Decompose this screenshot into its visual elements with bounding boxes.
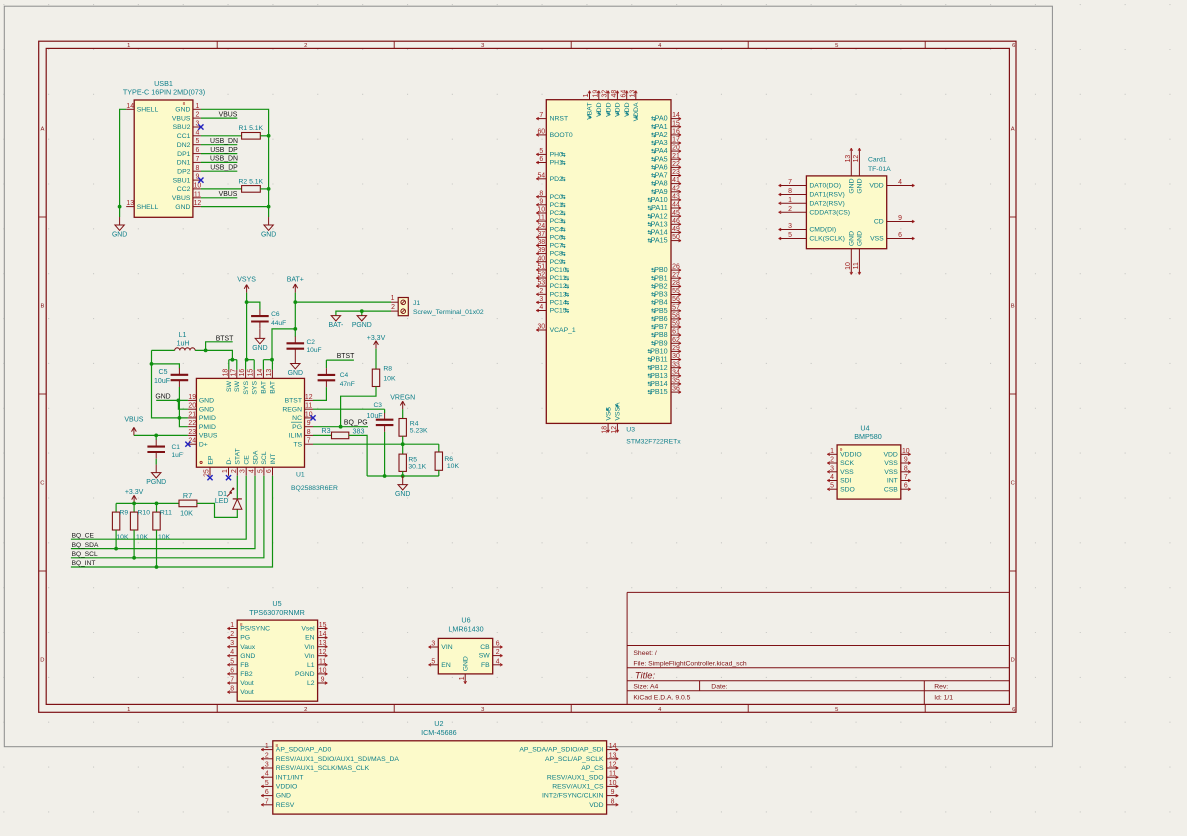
svg-text:GND: GND	[849, 178, 856, 193]
svg-text:BAT: BAT	[261, 381, 268, 394]
svg-text:5: 5	[431, 658, 435, 665]
svg-text:SW: SW	[234, 380, 241, 392]
svg-text:5: 5	[835, 43, 838, 49]
svg-text:5: 5	[257, 469, 264, 473]
svg-text:25: 25	[204, 469, 211, 477]
svg-text:RESV/AUX1_SCLK/MAS_CLK: RESV/AUX1_SCLK/MAS_CLK	[276, 765, 370, 772]
svg-text:13: 13	[319, 640, 327, 647]
svg-text:PGND: PGND	[295, 671, 315, 678]
svg-text:21: 21	[672, 153, 680, 160]
svg-text:3: 3	[539, 296, 543, 303]
svg-text:52: 52	[537, 272, 545, 279]
svg-text:10uF: 10uF	[307, 347, 322, 354]
svg-text:6: 6	[1012, 43, 1015, 49]
svg-text:+3.3V: +3.3V	[367, 335, 386, 342]
svg-text:15: 15	[319, 622, 327, 629]
svg-text:USB_DP: USB_DP	[210, 164, 238, 171]
svg-text:EN: EN	[441, 662, 451, 669]
svg-text:VBUS: VBUS	[172, 195, 191, 202]
svg-text:11: 11	[319, 658, 326, 665]
svg-text:23: 23	[672, 169, 680, 176]
svg-text:INT2/FSYNC/CLKIN: INT2/FSYNC/CLKIN	[542, 793, 604, 800]
svg-text:29: 29	[672, 345, 680, 352]
svg-text:22: 22	[672, 161, 680, 168]
svg-text:VSS: VSS	[884, 469, 898, 476]
svg-text:SW: SW	[479, 653, 491, 660]
svg-text:GND: GND	[252, 345, 267, 352]
svg-text:PG: PG	[292, 424, 302, 431]
svg-text:8: 8	[195, 165, 199, 172]
svg-text:PA15: PA15	[651, 236, 668, 245]
svg-text:14: 14	[609, 743, 617, 750]
svg-text:20: 20	[672, 145, 680, 152]
svg-text:BTST: BTST	[337, 353, 355, 360]
svg-text:C3: C3	[374, 402, 383, 409]
svg-text:11: 11	[305, 403, 312, 410]
svg-text:13: 13	[629, 90, 636, 98]
svg-text:Vout: Vout	[240, 680, 254, 687]
svg-text:FB2: FB2	[240, 671, 253, 678]
svg-text:U6: U6	[461, 616, 470, 625]
svg-text:20: 20	[188, 403, 196, 410]
svg-text:SHELL: SHELL	[137, 204, 159, 211]
svg-text:19: 19	[592, 90, 599, 98]
svg-text:2: 2	[830, 457, 834, 464]
svg-text:50: 50	[672, 234, 680, 241]
svg-text:ICM-45686: ICM-45686	[421, 728, 457, 737]
svg-text:59: 59	[672, 321, 680, 328]
svg-text:R11: R11	[160, 510, 172, 517]
svg-text:2: 2	[231, 469, 238, 473]
svg-text:CD: CD	[874, 219, 884, 226]
svg-text:5: 5	[539, 148, 543, 155]
svg-text:11: 11	[194, 191, 201, 198]
svg-text:VBUS: VBUS	[124, 417, 143, 424]
svg-text:3: 3	[265, 762, 269, 769]
svg-text:8: 8	[611, 798, 615, 805]
svg-text:U5: U5	[272, 599, 281, 608]
svg-text:14: 14	[319, 631, 327, 638]
svg-text:15: 15	[672, 120, 680, 127]
svg-text:1: 1	[195, 103, 199, 110]
svg-text:LED: LED	[215, 498, 229, 505]
svg-text:4: 4	[830, 474, 834, 481]
svg-text:BQ_PG: BQ_PG	[344, 420, 368, 427]
svg-text:FB: FB	[240, 662, 249, 669]
svg-text:9: 9	[904, 457, 908, 464]
svg-text:TF-01A: TF-01A	[868, 166, 891, 173]
svg-text:46: 46	[672, 218, 680, 225]
svg-text:BAT+: BAT+	[287, 277, 304, 284]
svg-text:R6: R6	[444, 456, 453, 463]
svg-text:Card1: Card1	[868, 157, 887, 164]
svg-text:CLK(SCLK): CLK(SCLK)	[809, 236, 845, 243]
svg-text:2: 2	[788, 206, 792, 213]
svg-text:AP_SDO/AP_AD0: AP_SDO/AP_AD0	[276, 747, 332, 754]
svg-text:SDO: SDO	[840, 486, 855, 493]
svg-text:GND: GND	[199, 406, 214, 413]
svg-text:SYS: SYS	[252, 381, 259, 395]
svg-text:1: 1	[127, 707, 130, 713]
svg-text:SBU2: SBU2	[173, 124, 191, 131]
svg-text:1: 1	[391, 295, 395, 302]
svg-text:6: 6	[195, 147, 199, 154]
svg-text:GND: GND	[261, 232, 276, 239]
svg-text:DN1: DN1	[177, 160, 191, 167]
svg-text:10K: 10K	[136, 534, 149, 541]
svg-text:GND: GND	[857, 178, 864, 193]
svg-text:L1: L1	[307, 662, 315, 669]
svg-text:Vsel: Vsel	[301, 626, 315, 633]
svg-text:PC10: PC10	[550, 267, 567, 274]
svg-text:43: 43	[672, 194, 680, 201]
svg-text:6: 6	[539, 156, 543, 163]
svg-text:1: 1	[830, 448, 834, 455]
svg-text:STM32F722RETx: STM32F722RETx	[626, 439, 681, 446]
svg-text:CC1: CC1	[177, 133, 191, 140]
svg-text:40: 40	[537, 255, 545, 262]
svg-text:1uH: 1uH	[177, 340, 190, 347]
svg-text:6: 6	[1012, 707, 1015, 713]
svg-text:EP: EP	[207, 455, 214, 465]
svg-text:5: 5	[835, 707, 838, 713]
svg-text:A: A	[40, 127, 44, 133]
svg-text:7: 7	[307, 438, 311, 445]
svg-text:VDDIO: VDDIO	[840, 451, 862, 458]
svg-text:10: 10	[845, 262, 852, 270]
svg-text:4: 4	[230, 649, 234, 656]
svg-text:VIn: VIn	[304, 644, 314, 651]
svg-text:R9: R9	[120, 510, 129, 517]
svg-text:Screw_Terminal_01x02: Screw_Terminal_01x02	[413, 309, 484, 316]
svg-text:9: 9	[321, 677, 325, 684]
svg-text:VCAP_1: VCAP_1	[550, 327, 576, 334]
svg-text:58: 58	[672, 313, 680, 320]
svg-text:10: 10	[319, 667, 327, 674]
svg-text:45: 45	[672, 210, 680, 217]
svg-text:VIn: VIn	[304, 653, 314, 660]
svg-text:GND: GND	[288, 370, 303, 377]
svg-text:54: 54	[537, 172, 545, 179]
svg-text:DP1: DP1	[177, 151, 190, 158]
svg-text:GND: GND	[240, 653, 255, 660]
svg-text:PGND: PGND	[146, 479, 166, 486]
svg-text:VBUS: VBUS	[219, 191, 238, 198]
svg-text:U1: U1	[296, 472, 305, 479]
svg-text:D1: D1	[218, 491, 227, 498]
svg-text:C: C	[1011, 481, 1015, 487]
svg-text:USB_DN: USB_DN	[210, 138, 238, 145]
svg-text:13: 13	[845, 155, 852, 163]
svg-text:D+: D+	[199, 441, 208, 448]
svg-text:BQ_SDA: BQ_SDA	[72, 542, 99, 549]
svg-text:Date:: Date:	[711, 684, 727, 691]
svg-text:11: 11	[538, 215, 545, 222]
svg-text:PC13: PC13	[550, 291, 567, 298]
svg-text:2: 2	[265, 752, 269, 759]
svg-text:4: 4	[249, 469, 256, 473]
svg-text:GND: GND	[155, 393, 170, 400]
svg-text:4: 4	[898, 179, 902, 186]
svg-text:C4: C4	[340, 372, 349, 379]
svg-text:INT: INT	[270, 454, 277, 465]
svg-text:DAT0(DO): DAT0(DO)	[809, 183, 841, 190]
svg-text:BQ_INT: BQ_INT	[72, 560, 96, 567]
svg-text:5: 5	[265, 780, 269, 787]
svg-text:35: 35	[672, 378, 680, 385]
svg-text:BQ25883R6ER: BQ25883R6ER	[291, 485, 338, 492]
svg-text:SDA: SDA	[252, 450, 259, 464]
svg-text:1: 1	[583, 94, 590, 98]
svg-text:KiCad E.D.A. 9.0.5: KiCad E.D.A. 9.0.5	[633, 695, 690, 702]
svg-text:55: 55	[672, 288, 680, 295]
svg-text:Size: A4: Size: A4	[633, 684, 658, 691]
svg-text:C5: C5	[159, 369, 168, 376]
svg-text:48: 48	[611, 90, 618, 98]
svg-text:TPS63070RNMR: TPS63070RNMR	[249, 608, 305, 617]
svg-text:2: 2	[304, 707, 307, 713]
svg-text:9: 9	[539, 198, 543, 205]
svg-text:J1: J1	[413, 300, 420, 307]
svg-text:3: 3	[240, 469, 247, 473]
svg-text:PC7: PC7	[550, 243, 563, 250]
svg-text:9: 9	[611, 789, 615, 796]
svg-text:5: 5	[195, 138, 199, 145]
svg-text:RESV/AUX1_CS: RESV/AUX1_CS	[552, 784, 604, 791]
svg-text:INT: INT	[887, 478, 898, 485]
svg-text:BQ_CE: BQ_CE	[72, 532, 95, 539]
svg-text:44uF: 44uF	[271, 320, 286, 327]
svg-text:32: 32	[602, 90, 609, 98]
svg-text:SBU1: SBU1	[173, 177, 191, 184]
svg-text:21: 21	[188, 411, 196, 418]
svg-text:17: 17	[672, 137, 680, 144]
svg-text:SCK: SCK	[840, 460, 854, 467]
svg-text:PMID: PMID	[199, 415, 216, 422]
svg-text:10: 10	[537, 207, 545, 214]
svg-text:5.23K: 5.23K	[410, 428, 428, 435]
svg-text:NC: NC	[292, 415, 302, 422]
svg-text:1: 1	[127, 43, 130, 49]
svg-text:+3.3V: +3.3V	[125, 489, 144, 496]
svg-text:26: 26	[672, 264, 680, 271]
svg-text:Sheet: /: Sheet: /	[633, 650, 657, 657]
svg-text:PC4: PC4	[550, 226, 563, 233]
svg-text:Vout: Vout	[240, 689, 254, 696]
svg-text:8: 8	[904, 465, 908, 472]
svg-text:GND: GND	[857, 231, 864, 246]
svg-text:49: 49	[672, 226, 680, 233]
svg-text:PB15: PB15	[650, 387, 668, 396]
svg-text:56: 56	[672, 296, 680, 303]
svg-text:VIN: VIN	[441, 644, 452, 651]
svg-text:VSS: VSS	[884, 460, 898, 467]
svg-text:GND: GND	[462, 656, 469, 671]
svg-text:R4: R4	[410, 421, 419, 428]
svg-text:10: 10	[194, 182, 202, 189]
svg-text:5: 5	[788, 232, 792, 239]
svg-text:PC0: PC0	[550, 194, 563, 201]
svg-text:R10: R10	[138, 510, 151, 517]
svg-text:PS/SYNC: PS/SYNC	[240, 626, 270, 633]
svg-text:D: D	[1011, 658, 1015, 664]
svg-text:PG: PG	[240, 635, 250, 642]
svg-text:10K: 10K	[158, 534, 171, 541]
svg-text:22: 22	[188, 420, 196, 427]
svg-text:VSS: VSS	[605, 407, 612, 421]
svg-text:VDDIO: VDDIO	[276, 784, 298, 791]
svg-text:U2: U2	[434, 719, 443, 728]
svg-text:VSYS: VSYS	[237, 277, 256, 284]
svg-text:C1: C1	[172, 444, 181, 451]
svg-text:47nF: 47nF	[340, 381, 355, 388]
svg-text:GND: GND	[395, 491, 410, 498]
svg-text:VBUS: VBUS	[219, 111, 238, 118]
svg-text:INT1/INT: INT1/INT	[276, 774, 304, 781]
svg-text:4: 4	[539, 304, 543, 311]
svg-text:53: 53	[537, 280, 545, 287]
svg-text:27: 27	[672, 272, 680, 279]
svg-text:2: 2	[391, 304, 395, 311]
svg-text:3: 3	[230, 640, 234, 647]
svg-text:FB: FB	[481, 662, 490, 669]
svg-text:64: 64	[620, 90, 627, 98]
svg-text:7: 7	[904, 474, 908, 481]
svg-text:2: 2	[195, 112, 199, 119]
svg-text:BMP580: BMP580	[854, 432, 882, 441]
svg-text:37: 37	[537, 231, 545, 238]
svg-text:60: 60	[537, 129, 545, 136]
svg-text:6: 6	[496, 641, 500, 648]
svg-text:8: 8	[183, 101, 186, 107]
svg-text:1: 1	[788, 197, 792, 204]
svg-text:PH0: PH0	[550, 152, 563, 159]
svg-text:B: B	[1011, 304, 1015, 310]
svg-text:28: 28	[672, 280, 680, 287]
svg-text:7: 7	[230, 677, 234, 684]
svg-text:RESV/AUX1_SDO: RESV/AUX1_SDO	[547, 774, 604, 781]
svg-text:B: B	[40, 304, 44, 310]
svg-text:DAT2(RSV): DAT2(RSV)	[809, 200, 844, 207]
svg-text:5: 5	[230, 658, 234, 665]
svg-text:7: 7	[265, 798, 269, 805]
svg-text:3: 3	[481, 707, 484, 713]
svg-text:CB: CB	[480, 644, 490, 651]
svg-text:57: 57	[672, 304, 680, 311]
svg-text:1uF: 1uF	[172, 452, 183, 459]
svg-text:Vaux: Vaux	[240, 644, 256, 651]
svg-text:12: 12	[611, 426, 618, 434]
svg-text:11: 11	[853, 262, 860, 269]
svg-text:6: 6	[266, 469, 273, 473]
svg-text:24: 24	[188, 438, 196, 445]
svg-text:3: 3	[481, 43, 484, 49]
svg-text:C: C	[40, 481, 44, 487]
svg-text:L2: L2	[307, 680, 315, 687]
svg-text:PC6: PC6	[550, 234, 563, 241]
svg-text:R7: R7	[183, 491, 192, 500]
svg-text:R3: R3	[321, 426, 330, 435]
svg-text:2: 2	[539, 288, 543, 295]
svg-text:PC3: PC3	[550, 218, 563, 225]
svg-text:AP_SCL/AP_SCLK: AP_SCL/AP_SCLK	[545, 756, 604, 763]
svg-text:GND: GND	[175, 204, 190, 211]
svg-text:10: 10	[902, 448, 910, 455]
svg-text:SCL: SCL	[261, 451, 268, 464]
svg-text:30: 30	[537, 324, 545, 331]
svg-text:9: 9	[898, 215, 902, 222]
svg-text:BTST: BTST	[216, 335, 234, 342]
svg-text:Id: 1/1: Id: 1/1	[934, 695, 953, 702]
svg-text:SDI: SDI	[840, 478, 851, 485]
svg-text:VDD: VDD	[883, 451, 897, 458]
svg-text:Rev:: Rev:	[934, 684, 948, 691]
svg-text:PC11: PC11	[550, 275, 567, 282]
svg-text:CDDAT3(CS): CDDAT3(CS)	[809, 209, 850, 216]
svg-text:REGN: REGN	[282, 406, 302, 413]
svg-text:23: 23	[188, 429, 196, 436]
svg-text:GND: GND	[175, 107, 190, 114]
svg-text:30.1K: 30.1K	[408, 464, 426, 471]
svg-text:4: 4	[265, 771, 269, 778]
svg-text:BQ_SCL: BQ_SCL	[72, 551, 98, 558]
svg-text:GND: GND	[849, 231, 856, 246]
svg-text:BTST: BTST	[285, 398, 302, 405]
svg-text:14: 14	[126, 103, 134, 110]
svg-text:44: 44	[672, 202, 680, 209]
svg-text:6: 6	[230, 667, 234, 674]
svg-text:TS: TS	[293, 441, 302, 448]
svg-text:62: 62	[672, 337, 680, 344]
svg-text:7: 7	[195, 156, 199, 163]
svg-text:11: 11	[609, 771, 616, 778]
svg-text:USB_DN: USB_DN	[210, 156, 238, 163]
svg-text:BOOT0: BOOT0	[550, 132, 573, 139]
svg-text:GND: GND	[112, 232, 127, 239]
svg-text:Title:: Title:	[635, 669, 656, 680]
svg-text:ILIM: ILIM	[289, 433, 303, 440]
svg-text:PC12: PC12	[550, 283, 567, 290]
svg-text:13: 13	[609, 752, 617, 759]
svg-text:38: 38	[537, 239, 545, 246]
svg-text:AP_SDA/AP_SDIO/AP_SDI: AP_SDA/AP_SDIO/AP_SDI	[519, 747, 603, 754]
svg-text:U3: U3	[626, 427, 635, 434]
svg-text:6: 6	[904, 483, 908, 490]
svg-text:CSB: CSB	[884, 486, 898, 493]
svg-text:24: 24	[537, 223, 545, 230]
svg-text:6: 6	[265, 789, 269, 796]
svg-text:10K: 10K	[116, 534, 129, 541]
svg-text:34: 34	[672, 369, 680, 376]
svg-text:5: 5	[830, 483, 834, 490]
svg-text:10: 10	[609, 780, 617, 787]
svg-text:33: 33	[672, 361, 680, 368]
svg-text:PMID: PMID	[199, 424, 216, 431]
svg-text:3: 3	[431, 641, 435, 648]
svg-text:14: 14	[672, 112, 680, 119]
svg-text:PC1: PC1	[550, 202, 563, 209]
svg-text:41: 41	[672, 177, 680, 184]
svg-text:BAT: BAT	[270, 381, 277, 394]
svg-text:12: 12	[194, 200, 202, 207]
svg-text:1: 1	[265, 743, 269, 750]
svg-text:C6: C6	[271, 311, 280, 318]
svg-text:NRST: NRST	[550, 116, 569, 123]
svg-text:12: 12	[305, 394, 313, 401]
svg-text:2: 2	[496, 649, 500, 656]
svg-text:10K: 10K	[180, 509, 193, 518]
svg-text:STAT: STAT	[235, 448, 242, 464]
